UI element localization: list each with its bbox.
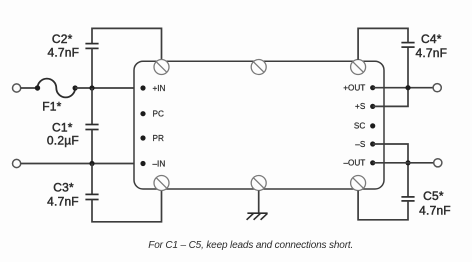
svg-text:PR: PR xyxy=(153,134,164,143)
svg-text:C2*: C2* xyxy=(52,32,73,46)
case pin bottom-center xyxy=(251,176,266,191)
wire: +IN junction to C1 xyxy=(91,88,93,125)
module U1 outline xyxy=(134,61,384,189)
wire: -OUT pin to output terminal xyxy=(373,162,434,164)
svg-text:4.7nF: 4.7nF xyxy=(47,195,79,209)
svg-text:–S: –S xyxy=(355,140,366,149)
wire: C3 to bottom-left case pin xyxy=(92,191,162,222)
wire: +S pin to C4 xyxy=(373,47,408,106)
terminal: +IN input xyxy=(13,84,21,92)
svg-text:0.2µF: 0.2µF xyxy=(47,134,79,148)
case pin bottom-right xyxy=(351,176,366,191)
terminal: -OUT output xyxy=(434,159,442,167)
svg-text:+OUT: +OUT xyxy=(343,84,365,93)
pin +S xyxy=(370,104,375,109)
junction: -OUT / C5 xyxy=(405,160,410,165)
wire: -S pin to C5 xyxy=(373,144,408,197)
pin -IN xyxy=(140,161,145,166)
pin -S xyxy=(370,141,375,146)
pin PR xyxy=(140,135,145,140)
svg-text:4.7nF: 4.7nF xyxy=(47,46,79,60)
pin SC xyxy=(370,123,375,128)
value label C1 0.2uF xyxy=(47,121,79,148)
wire: -IN terminal to -IN pin xyxy=(21,163,143,165)
capacitor C2 xyxy=(85,44,98,49)
case pin top-right xyxy=(351,60,366,75)
svg-text:C5*: C5* xyxy=(423,189,444,203)
value label C4 4.7nF xyxy=(415,32,447,60)
junction: -IN bus xyxy=(89,161,94,166)
svg-text:For C1 – C5, keep leads and co: For C1 – C5, keep leads and connections … xyxy=(148,240,353,251)
junction: +OUT / C4 xyxy=(405,85,410,90)
svg-text:–IN: –IN xyxy=(153,159,166,168)
terminal: +OUT output xyxy=(433,84,441,92)
svg-text:+S: +S xyxy=(355,102,366,111)
value label C5 4.7nF xyxy=(419,189,451,218)
pin +IN xyxy=(140,85,145,90)
svg-text:C1*: C1* xyxy=(52,121,73,135)
wire: C4 top to top-right case pin xyxy=(358,28,408,59)
capacitor C1 xyxy=(85,125,98,130)
wire: C2 to +IN bus junction xyxy=(91,48,93,88)
value label C2 4.7nF xyxy=(47,32,79,59)
wire: fuse to +IN pin xyxy=(75,87,143,89)
terminal: -IN input xyxy=(13,159,21,167)
wire: C5 bottom to bottom-right case pin xyxy=(358,191,408,220)
svg-text:SC: SC xyxy=(354,122,365,131)
wire: C1 to -IN bus junction xyxy=(91,130,93,164)
wire: -IN junction to C3 xyxy=(91,164,93,195)
capacitor C4 xyxy=(401,43,414,48)
svg-text:C3*: C3* xyxy=(53,180,74,194)
case pin top-left xyxy=(154,60,169,75)
pin PC xyxy=(140,111,145,116)
ground xyxy=(247,213,268,220)
junction: +IN bus xyxy=(89,85,94,90)
wire: bottom-center case pin to ground xyxy=(258,191,260,214)
capacitor C5 xyxy=(401,197,414,201)
svg-text:4.7nF: 4.7nF xyxy=(419,204,451,218)
capacitor C3 xyxy=(85,194,98,199)
wire: input terminal to fuse xyxy=(21,87,38,89)
svg-text:+IN: +IN xyxy=(153,84,166,93)
case pin top-center xyxy=(251,60,266,75)
case pin bottom-left xyxy=(154,176,169,191)
svg-text:–OUT: –OUT xyxy=(343,159,365,168)
pin -OUT xyxy=(370,160,375,165)
pin +OUT xyxy=(370,85,375,90)
svg-text:PC: PC xyxy=(153,110,164,119)
wire: +OUT pin to output terminal xyxy=(373,87,433,89)
svg-text:C4*: C4* xyxy=(421,32,442,46)
fuse F1 xyxy=(35,79,78,98)
wire: C2 top lead to top-left case pin xyxy=(92,28,162,59)
value label C3 4.7nF xyxy=(47,180,79,208)
svg-text:F1*: F1* xyxy=(42,100,61,114)
svg-text:4.7nF: 4.7nF xyxy=(415,46,447,60)
